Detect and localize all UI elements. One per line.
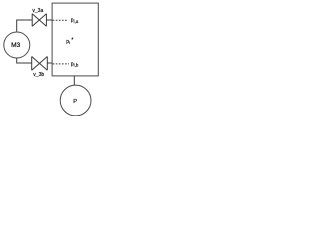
svg-text:M3: M3 xyxy=(11,42,20,49)
svg-text:P: P xyxy=(73,99,77,105)
svg-text:pi,b: pi,b xyxy=(71,61,79,67)
svg-text:v_3a: v_3a xyxy=(32,8,43,14)
svg-text:v_3b: v_3b xyxy=(33,72,44,78)
svg-text:pi,a: pi,a xyxy=(71,18,79,24)
